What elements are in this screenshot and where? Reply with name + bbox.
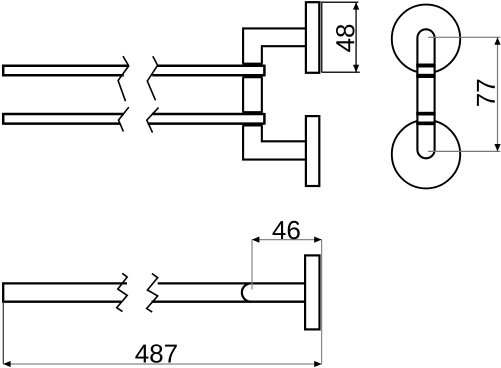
top bar left segment	[3, 65, 129, 77]
swivel end arc	[242, 283, 251, 301]
break symbol bottom bar left	[119, 107, 129, 131]
arrow 48 up	[353, 2, 359, 9]
extension line 77 bottom	[428, 150, 500, 152]
extension line 487 left	[2, 303, 4, 364]
ring band top-2	[416, 74, 435, 78]
ring band top-1	[416, 64, 435, 68]
swivel ring bottom bar	[243, 112, 263, 125]
post between bars	[243, 77, 262, 112]
swivel ring top bar	[243, 64, 263, 77]
extension line 48 bottom	[322, 71, 360, 73]
upper bracket arm	[243, 28, 306, 63]
bottom bar left segment	[3, 113, 124, 125]
extension line 48 vertical	[321, 2, 323, 72]
arrow 77 up	[494, 37, 500, 44]
upper wall plate	[306, 2, 319, 73]
arrow 487 right	[314, 361, 321, 367]
bottom bar right segment	[148, 113, 265, 125]
dimension line 48	[355, 2, 357, 72]
arrow 487 left	[3, 361, 10, 367]
label 77	[477, 80, 495, 106]
break symbol top bar right	[147, 56, 157, 100]
arrow 77 down	[494, 144, 500, 151]
dimension line 46	[252, 239, 322, 241]
break symbol plan left	[117, 273, 128, 311]
ring band bottom-1	[416, 112, 435, 116]
upper rosette circle	[392, 5, 460, 73]
dimension line 487	[3, 363, 321, 365]
plan wall plate	[305, 255, 319, 329]
dimension line 77	[497, 37, 499, 151]
arrow 46 left	[252, 237, 259, 243]
break symbol top bar left	[118, 56, 129, 101]
lower wall plate	[306, 116, 319, 186]
post capsule	[417, 29, 434, 158]
extension line 46/487 right	[321, 240, 323, 364]
extension line 77 top	[428, 36, 500, 38]
plan bar right segment	[152, 283, 307, 301]
extension line 46 left	[251, 240, 253, 290]
break symbol plan right	[147, 274, 158, 313]
extension line 48 top	[321, 1, 359, 3]
ring band bottom-2	[416, 122, 435, 126]
label 487	[135, 344, 177, 363]
top bar right segment	[152, 65, 264, 77]
lower bracket arm	[243, 125, 306, 159]
arrow 46 right	[314, 237, 321, 243]
label 46	[273, 221, 300, 240]
label 48	[336, 25, 355, 52]
plan bar left segment	[3, 282, 127, 303]
lower rosette circle	[392, 120, 460, 188]
break symbol bottom bar right	[147, 108, 159, 133]
arrow 48 down	[353, 65, 359, 72]
